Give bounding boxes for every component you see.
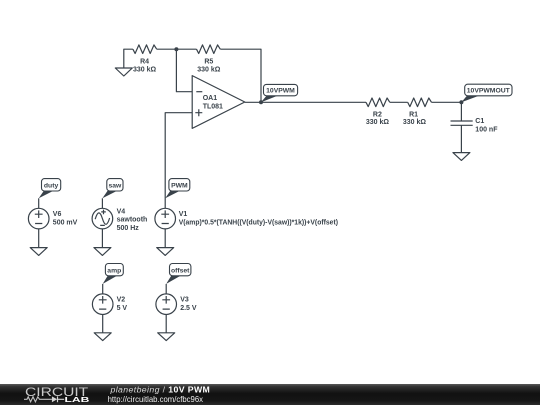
svg-text:330 kΩ: 330 kΩ	[403, 119, 427, 126]
ground G7 (below V3)	[158, 333, 175, 341]
CircuitLab logo resistor squiggle	[24, 397, 52, 402]
svg-text:amp: amp	[107, 268, 121, 275]
op-amp plus pin mark	[195, 109, 202, 116]
junction at 10VPWMOUT node	[459, 100, 463, 104]
svg-text:TL081: TL081	[203, 104, 223, 111]
wire: junction down to op-amp inverting input	[176, 49, 192, 91]
resistor R1	[408, 98, 432, 107]
V4 sine wave mark	[95, 213, 109, 224]
node flag PWM	[165, 179, 190, 199]
wire: op-amp noninverting input left and down to V1	[165, 113, 192, 209]
V4 small plus/minus marks	[100, 210, 106, 226]
wire: V1 bottom to ground	[164, 229, 166, 248]
svg-text:PWM: PWM	[171, 183, 188, 190]
svg-text:330 kΩ: 330 kΩ	[366, 119, 390, 126]
svg-text:planetbeing / 10V PWM: planetbeing / 10V PWM	[110, 384, 211, 394]
wire: op-amp output to RC filter	[245, 101, 462, 103]
V1 plus/minus marks	[161, 210, 169, 223]
wire: R4 to R5 through junction	[157, 48, 197, 50]
wire: V4 bottom to ground	[101, 229, 103, 248]
V2 plus/minus marks	[99, 296, 107, 309]
wire: V3 bottom to ground	[165, 315, 167, 333]
node flag 10VPWMOUT	[461, 84, 512, 102]
svg-text:R4: R4	[140, 59, 149, 66]
svg-text:sawtooth: sawtooth	[117, 217, 148, 224]
wire: R4 left lead corner down to ground	[124, 49, 133, 68]
node flag 10VPWM	[261, 84, 298, 102]
junction at 10VPWM node	[259, 100, 263, 104]
source V4 circle	[92, 208, 113, 229]
svg-text:5 V: 5 V	[117, 305, 128, 312]
svg-text:R2: R2	[373, 112, 382, 119]
resistor R4	[133, 45, 157, 54]
ground G1 (left of R4)	[115, 68, 132, 76]
resistor R2	[366, 98, 390, 107]
V3 plus/minus marks	[162, 296, 170, 309]
CircuitLab logo diode	[52, 396, 57, 402]
ground G2 (below C1)	[453, 153, 470, 161]
svg-text:10VPWMOUT: 10VPWMOUT	[467, 88, 511, 95]
svg-text:100 nF: 100 nF	[475, 126, 498, 133]
svg-text:C1: C1	[475, 118, 484, 125]
svg-text:saw: saw	[108, 183, 122, 190]
source V2 circle	[92, 294, 113, 315]
ground G4 (below V4)	[94, 248, 111, 256]
svg-text:330 kΩ: 330 kΩ	[197, 66, 221, 73]
svg-text:R5: R5	[204, 59, 213, 66]
op-amp OA1 triangle	[192, 76, 245, 129]
wire: R5 right to feedback corner down to output	[220, 49, 261, 102]
ground G6 (below V2)	[94, 333, 111, 341]
resistor R5	[197, 45, 221, 54]
junction at R4/R5 node	[174, 47, 178, 51]
node flag duty	[39, 179, 61, 199]
svg-text:V(amp)*0.5*(TANH((V(duty)-V(sa: V(amp)*0.5*(TANH((V(duty)-V(saw))*1k))+V…	[179, 220, 338, 227]
svg-text:http://circuitlab.com/cfbc96x: http://circuitlab.com/cfbc96x	[108, 394, 204, 404]
svg-text:LAB: LAB	[65, 395, 90, 404]
svg-text:V2: V2	[117, 297, 126, 304]
V6 plus/minus marks	[35, 210, 43, 223]
svg-text:V1: V1	[179, 211, 188, 218]
wire: amp node to V2 top	[102, 284, 104, 294]
svg-text:R1: R1	[409, 112, 418, 119]
svg-text:2.5 V: 2.5 V	[180, 305, 197, 312]
svg-text:500 Hz: 500 Hz	[117, 225, 140, 232]
op-amp minus pin mark	[196, 91, 202, 93]
node flag offset	[166, 264, 191, 284]
svg-text:10VPWM: 10VPWM	[266, 88, 295, 95]
svg-text:duty: duty	[44, 183, 59, 190]
wire: 10VPWMOUT node down to C1	[460, 102, 462, 121]
wire: V6 bottom to ground	[38, 229, 40, 248]
source V1 circle	[155, 208, 176, 229]
svg-text:V3: V3	[180, 297, 189, 304]
capacitor C1	[451, 121, 473, 125]
wire: saw node to V4 top	[101, 198, 103, 208]
svg-text:V4: V4	[117, 208, 126, 215]
node flag saw	[102, 179, 123, 199]
source V6 circle	[28, 208, 49, 229]
svg-text:OA1: OA1	[203, 95, 218, 102]
svg-text:V6: V6	[53, 211, 62, 218]
svg-text:330 kΩ: 330 kΩ	[133, 66, 157, 73]
svg-text:offset: offset	[171, 268, 190, 275]
footer bar	[0, 384, 540, 405]
ground G3 (below V6)	[30, 248, 47, 256]
wire: duty node to V6 top	[38, 198, 40, 208]
ground G5 (below V1)	[157, 248, 174, 256]
svg-text:500 mV: 500 mV	[53, 220, 78, 227]
wire: offset node to V3 top	[165, 284, 167, 294]
wire: C1 to ground	[460, 125, 462, 152]
wire: V2 bottom to ground	[102, 315, 104, 333]
node flag amp	[103, 264, 124, 284]
source V3 circle	[156, 294, 177, 315]
